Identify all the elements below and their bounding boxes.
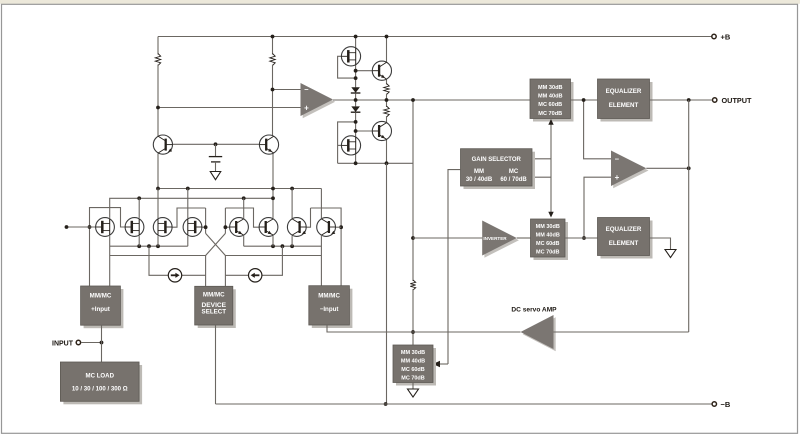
arrow up into dB box1 bbox=[548, 119, 553, 125]
svg-text:OUTPUT: OUTPUT bbox=[722, 96, 753, 105]
block EQUALIZER ELEMENT 1 bbox=[598, 79, 653, 122]
svg-text:−B: −B bbox=[721, 400, 731, 409]
wire devsel left vertical lower bbox=[205, 256, 207, 287]
wire Q5 top bbox=[243, 198, 245, 218]
block MM/MC +Input bbox=[81, 286, 124, 328]
wire devsel left vertical upper bbox=[205, 208, 207, 233]
block MC LOAD bbox=[60, 362, 142, 404]
wire +input of U1 bbox=[158, 107, 301, 109]
svg-text:30 / 40dB: 30 / 40dB bbox=[466, 177, 493, 183]
svg-text:MC 60dB: MC 60dB bbox=[536, 241, 560, 247]
node U2 output junction bbox=[687, 166, 691, 170]
block EQUALIZER ELEMENT 2 bbox=[598, 218, 653, 259]
wire M4 gate feed bbox=[202, 226, 206, 228]
wire Q4 base bbox=[356, 130, 378, 132]
wire input gate chain bbox=[90, 208, 132, 286]
node M4 gate junction bbox=[204, 225, 208, 229]
node rail R2 dot b bbox=[242, 196, 246, 200]
resistor R3 bbox=[384, 84, 389, 95]
wire array lower rail right bbox=[244, 245, 322, 247]
node top rail junction A bbox=[271, 35, 275, 39]
block gain dB list 1 bbox=[530, 79, 574, 122]
node rail R2 dot c bbox=[271, 196, 275, 200]
ground below capacitor bbox=[210, 172, 221, 180]
svg-text:EQUALIZER: EQUALIZER bbox=[606, 88, 642, 95]
wire resistor column upper bbox=[386, 37, 388, 85]
node lower rail dot f bbox=[290, 244, 294, 248]
wire between diodes bbox=[355, 93, 357, 106]
wire servo output bus bbox=[387, 331, 521, 333]
node output junction bbox=[687, 98, 691, 102]
wire M2 gate bracket bbox=[338, 122, 356, 163]
wire capacitor drop bbox=[215, 144, 217, 156]
wire M3 channel top bbox=[157, 189, 159, 219]
wire M4 bottom bbox=[187, 236, 189, 246]
wire selector right top bbox=[532, 158, 551, 160]
wire array lower rail left bbox=[110, 245, 188, 247]
wire U2 output bbox=[646, 167, 688, 169]
svg-text:ELEMENT: ELEMENT bbox=[609, 240, 639, 247]
node input junction bbox=[100, 341, 104, 345]
op-amp U2 bbox=[611, 151, 649, 189]
diode D2 bbox=[351, 106, 361, 112]
svg-text:+: + bbox=[615, 173, 620, 182]
node Q4 base junction bbox=[354, 129, 358, 133]
wire cross diagonal A bbox=[206, 233, 226, 255]
wire main feedback vertical bbox=[412, 100, 414, 281]
block gain dB list 3 bbox=[393, 345, 436, 386]
wire selector left bbox=[448, 170, 461, 364]
svg-text:MC LOAD: MC LOAD bbox=[86, 373, 115, 380]
op-amp INVERTER bbox=[482, 221, 519, 258]
svg-text:−: − bbox=[615, 154, 620, 163]
transistor M1 bbox=[341, 47, 360, 66]
svg-text:MC 70dB: MC 70dB bbox=[538, 111, 562, 117]
node rail R2 dot a bbox=[137, 196, 141, 200]
transistor M2 bbox=[341, 136, 360, 155]
node Q8 base junction bbox=[339, 225, 343, 229]
node Q3 base junction bbox=[354, 69, 358, 73]
node lower rail dot a bbox=[137, 244, 141, 248]
svg-text:MM 30dB: MM 30dB bbox=[538, 85, 563, 91]
block MM/MC -Input bbox=[309, 286, 353, 328]
wire Q5 base feed bbox=[225, 226, 230, 228]
svg-text:ELEMENT: ELEMENT bbox=[609, 102, 639, 109]
op-amp DC servo bbox=[521, 315, 556, 351]
node resistor column top bbox=[385, 35, 389, 39]
node bottom rail right dot bbox=[385, 161, 389, 165]
transistor M6 array bbox=[183, 218, 202, 237]
wire right branch upper bbox=[272, 37, 274, 55]
label -B bbox=[721, 400, 731, 409]
wire current source I1 left bbox=[149, 246, 169, 275]
svg-text:MM: MM bbox=[474, 169, 484, 175]
wire box3 to ground bbox=[412, 383, 414, 390]
wire current source I1 right bbox=[181, 274, 205, 276]
svg-text:GAIN SELECTOR: GAIN SELECTOR bbox=[472, 157, 522, 163]
svg-text:MC 70dB: MC 70dB bbox=[401, 375, 425, 381]
op-amp U1 bbox=[301, 83, 336, 118]
terminal OUTPUT bbox=[713, 98, 717, 102]
wire Q8 emitter column bbox=[320, 236, 322, 286]
wire Q8 base bracket bbox=[311, 208, 342, 286]
transistor Q1 bbox=[153, 135, 172, 154]
node lower gate bracket junction bbox=[354, 120, 358, 124]
wire Q6 bottom bbox=[272, 236, 274, 246]
wire equalizer2 to ground bbox=[650, 238, 671, 250]
node equalizer input junction bbox=[582, 98, 586, 102]
node bottom bus junction bbox=[384, 402, 388, 406]
arrow into dB box3 bbox=[433, 361, 440, 368]
svg-text:+B: +B bbox=[721, 32, 731, 41]
wire right branch to Q2 bbox=[272, 65, 274, 137]
node rail R1 dot a bbox=[156, 187, 160, 191]
svg-text:−: − bbox=[304, 85, 309, 94]
node servo bus junction bbox=[411, 330, 415, 334]
transistor Q4 bbox=[372, 121, 391, 140]
wire left branch upper bbox=[157, 37, 159, 55]
wire U2 plus feed bbox=[584, 177, 611, 238]
wire M2 gate stub bbox=[338, 144, 342, 146]
svg-text:MC 60dB: MC 60dB bbox=[538, 102, 562, 108]
block MM/MC DEVICE SELECT bbox=[195, 286, 236, 328]
resistor R2 bbox=[270, 54, 275, 66]
wire Q3 base bbox=[356, 70, 378, 72]
wire current source I2 left bbox=[225, 274, 248, 276]
svg-text:INVERTER: INVERTER bbox=[483, 236, 507, 241]
svg-text:MC: MC bbox=[509, 169, 519, 175]
label OUTPUT bbox=[722, 96, 753, 105]
node resistor mid junction bbox=[385, 98, 389, 102]
wire array rail R2 bbox=[110, 198, 273, 218]
transistor M3 array bbox=[96, 218, 115, 237]
wire resistor column lower bbox=[386, 116, 388, 163]
wire U2 minus feed bbox=[584, 100, 611, 159]
node M1 gate junction bbox=[88, 225, 92, 229]
current source I2 bbox=[249, 269, 262, 282]
wire capacitor to ground bbox=[215, 162, 217, 172]
node inverter branch junction bbox=[411, 236, 415, 240]
ground below box3 bbox=[408, 389, 419, 397]
wire bottom -B bus bbox=[216, 403, 712, 405]
wire inverter output bbox=[517, 237, 531, 239]
diode D1 bbox=[351, 87, 361, 93]
wire M2 top bbox=[138, 198, 140, 218]
node box2 output junction bbox=[582, 236, 586, 240]
label DC servo AMP bbox=[511, 307, 557, 314]
block gain dB list 2 bbox=[531, 219, 569, 260]
capacitor C1 bbox=[209, 157, 222, 162]
wire -input box bottom bbox=[327, 325, 387, 332]
wire gate rail B2 right bbox=[225, 255, 321, 257]
svg-text:DC servo AMP: DC servo AMP bbox=[511, 307, 557, 314]
wire array rail R1 bbox=[158, 188, 321, 190]
wire selector right bottom bbox=[532, 176, 551, 178]
wire diode column lower bbox=[355, 112, 357, 163]
node diode column top bbox=[354, 35, 358, 39]
label INVERTER bbox=[483, 236, 507, 241]
svg-text:MM/MC: MM/MC bbox=[203, 292, 225, 299]
transistor Q3 bbox=[372, 61, 391, 80]
label +B bbox=[721, 32, 731, 41]
wire device select drop bbox=[215, 325, 217, 404]
node rail R1 dot c bbox=[271, 187, 275, 191]
svg-text:MM 30dB: MM 30dB bbox=[401, 350, 425, 356]
node rail R1 dot d bbox=[290, 187, 294, 191]
wire M3 gate feed bbox=[172, 208, 206, 227]
transistor Q8 array bbox=[317, 218, 336, 237]
node left +input junction bbox=[156, 106, 160, 110]
node U1 output junction bbox=[411, 98, 415, 102]
svg-text:MM/MC: MM/MC bbox=[318, 293, 340, 300]
svg-text:INPUT: INPUT bbox=[52, 340, 74, 347]
node Q5 base junction bbox=[224, 225, 228, 229]
node base link junction bbox=[214, 142, 218, 146]
svg-text:MC 60dB: MC 60dB bbox=[401, 367, 425, 373]
svg-text:10 / 30 / 100 / 300 Ω: 10 / 30 / 100 / 300 Ω bbox=[72, 386, 128, 393]
svg-text:MM 40dB: MM 40dB bbox=[538, 94, 563, 100]
arrow into dB box2 bbox=[548, 212, 553, 218]
wire Q8 base stub bbox=[336, 226, 342, 228]
wire M3 bottom bbox=[157, 236, 159, 246]
wire servo input bbox=[554, 331, 689, 333]
wire equalizer1 to output bbox=[650, 99, 712, 101]
wire Q7 base feed bbox=[306, 208, 310, 227]
wire left branch to Q1 bbox=[157, 65, 159, 137]
terminal +B bbox=[712, 34, 716, 38]
wire inverter input bbox=[413, 237, 482, 239]
wire current source I2 right bbox=[262, 246, 283, 275]
wire output stage bottom rail bbox=[338, 162, 413, 164]
wire Q1 emitter down bbox=[157, 154, 159, 189]
svg-text:SELECT: SELECT bbox=[202, 308, 227, 315]
resistor R4 bbox=[384, 106, 389, 117]
current source I1 bbox=[168, 269, 181, 282]
wire Q7 top bbox=[291, 189, 293, 219]
wire cross diagonal B bbox=[206, 233, 226, 255]
wire box1 to equalizer1 bbox=[571, 99, 598, 101]
node lower rail dot c bbox=[156, 244, 160, 248]
svg-text:+: + bbox=[304, 103, 309, 112]
wire diode column upper bbox=[355, 37, 357, 88]
wire M1 source column bbox=[109, 236, 111, 286]
terminal -B bbox=[712, 402, 716, 406]
node diode mid junction bbox=[354, 98, 358, 102]
svg-text:MC 70dB: MC 70dB bbox=[536, 250, 560, 256]
wire box2 to equalizer2 bbox=[565, 237, 598, 239]
wire box1 bottom to selector bbox=[550, 121, 552, 213]
wire top +B rail bbox=[158, 36, 712, 38]
transistor M5 array bbox=[153, 218, 172, 237]
svg-text:MM 30dB: MM 30dB bbox=[536, 224, 560, 230]
node rail R1 dot b bbox=[186, 187, 190, 191]
transistor Q2 bbox=[259, 135, 278, 154]
wire +input box to MC load bbox=[101, 325, 103, 362]
ground after equalizer2 bbox=[665, 250, 676, 258]
label INPUT bbox=[52, 340, 74, 347]
node M1 gate left end bbox=[65, 225, 69, 229]
transistor M4 array bbox=[125, 218, 144, 237]
resistor R5 bbox=[410, 280, 415, 290]
transistor Q6 array bbox=[259, 218, 278, 237]
svg-text:MM/MC: MM/MC bbox=[90, 293, 112, 300]
terminal INPUT bbox=[76, 340, 80, 344]
svg-text:+Input: +Input bbox=[91, 306, 110, 313]
wire Q8 top bbox=[320, 189, 322, 219]
node -input junction bbox=[271, 88, 275, 92]
wire M1 gate stub bbox=[67, 226, 103, 228]
node lower rail dot b bbox=[147, 244, 151, 248]
wire input terminal bbox=[81, 342, 102, 344]
wire emitter column to bottom bus bbox=[386, 163, 388, 404]
wire Q6 base feed bbox=[225, 208, 260, 227]
wire arrow into box3 bbox=[438, 363, 448, 365]
transistor Q5 array bbox=[230, 218, 249, 237]
wire M4 channel top bbox=[187, 189, 189, 219]
wire output feedback vertical bbox=[688, 100, 690, 332]
svg-text:60 / 70dB: 60 / 70dB bbox=[500, 177, 527, 183]
resistor R1 bbox=[155, 54, 160, 66]
svg-text:MM 40dB: MM 40dB bbox=[401, 358, 425, 364]
wire Q2 emitter down bbox=[272, 154, 274, 199]
wire M2 bottom bbox=[138, 236, 140, 246]
wire -input of U1 bbox=[273, 89, 301, 91]
wire feedback vertical lower bbox=[412, 289, 414, 345]
wire devsel right vertical upper bbox=[224, 208, 226, 233]
svg-text:EQUALIZER: EQUALIZER bbox=[606, 226, 642, 233]
svg-text:MM 40dB: MM 40dB bbox=[536, 233, 560, 239]
block GAIN SELECTOR bbox=[461, 149, 536, 189]
wire Q1-Q2 base link bbox=[165, 143, 266, 145]
wire U1 output bus bbox=[333, 99, 530, 101]
wire between resistors bbox=[386, 94, 388, 108]
transistor Q7 array bbox=[287, 218, 306, 237]
node gate bracket junction bbox=[354, 76, 358, 80]
node lower rail dot e bbox=[281, 244, 285, 248]
wire devsel right vertical lower bbox=[224, 256, 226, 287]
wire Q7 bottom bbox=[291, 236, 293, 246]
wire M1 gate bracket bbox=[338, 56, 356, 78]
svg-text:−Input: −Input bbox=[320, 306, 339, 313]
wire gate rail B2 left bbox=[110, 255, 206, 257]
node lower rail dot d bbox=[271, 244, 275, 248]
page frame top strip bbox=[0, 0, 800, 4]
node bottom rail left dot bbox=[354, 161, 358, 165]
wire Q5 bottom bbox=[243, 236, 245, 246]
